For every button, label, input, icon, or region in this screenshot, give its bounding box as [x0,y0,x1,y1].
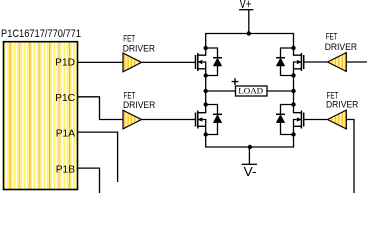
wire U4 output to Q2 gate [304,61,328,63]
wire U2 output to Q1 gate [142,61,196,63]
diode D4 (across Q4) [276,105,294,135]
load LOAD box [236,86,268,96]
wire right mid column [293,76,295,105]
node Q3 drain dot [204,102,208,106]
svg-text:DRIVER: DRIVER [123,44,155,55]
wire bottom rail [206,135,294,148]
node V+ junction dot [247,31,251,35]
wire U4 input from right edge [346,61,367,63]
svg-text:P1C: P1C [55,93,75,104]
svg-text:FET: FET [326,31,338,42]
svg-text:P1C16717/770/771: P1C16717/770/771 [1,28,81,40]
wire load rail left [206,90,236,92]
node load rail left dot [204,89,208,93]
svg-text:DRIVER: DRIVER [326,99,358,110]
transistor Q1 top-left MOSFET [196,48,206,76]
wire P1B down to bottom edge [78,168,100,193]
node Q1 drain dot [204,46,208,50]
svg-text:P1B: P1B [56,165,75,176]
node Q2 source dot [291,73,295,77]
svg-text:DRIVER: DRIVER [123,100,155,111]
node Q3 source dot [204,132,208,136]
FET driver U3 buffer triangle [123,110,142,129]
transistor Q2 top-right MOSFET (mirrored) [294,48,304,76]
node Q4 source dot [291,132,295,136]
node V- junction dot [248,145,252,149]
wire P1D to FET driver U2 input [78,61,124,63]
FET driver U5 buffer triangle (points left) [328,110,347,129]
wire top rail [206,34,294,49]
V- power symbol [248,147,250,164]
transistor Q4 bottom-right MOSFET (mirrored) [294,105,304,135]
FET driver U2 buffer triangle [123,53,142,72]
wire P1A down stub [78,132,118,182]
wire U5 input down to bottom edge [346,120,354,194]
svg-text:P1A: P1A [56,129,75,140]
svg-text:DRIVER: DRIVER [325,42,357,53]
wire load rail right [267,90,294,92]
diode D3 (across Q3) [206,105,222,135]
transistor Q3 bottom-left MOSFET [196,105,206,135]
diode D1 (across Q1) [206,48,222,76]
wire U3 output to Q3 gate [142,119,196,121]
svg-text:LOAD: LOAD [238,87,263,96]
FET driver U4 buffer triangle (points left) [328,53,347,72]
svg-text:P1D: P1D [55,58,75,69]
svg-text:V-: V- [244,165,257,179]
IC U1 PIC16C717/770/771 body [4,42,78,190]
plus polarity mark [232,78,239,85]
wire P1C to FET driver U3 input [78,97,124,120]
diode D2 (across Q2) [276,48,294,76]
node load rail right dot [291,89,295,93]
node Q2 drain dot [291,46,295,50]
wire U5 output to Q4 gate [304,119,328,121]
node Q1 source dot [204,73,208,77]
wire left mid column [205,76,207,105]
node Q4 drain dot [291,102,295,106]
